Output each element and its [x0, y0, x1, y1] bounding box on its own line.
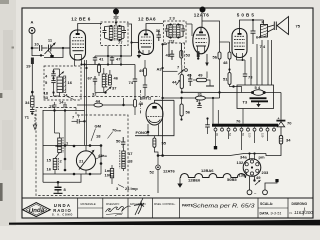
capacitor 41 [93, 56, 97, 65]
wire cap14 down to gang rail [64, 111, 66, 146]
filter choke T3 plates [250, 97, 267, 99]
svg-text:34: 34 [25, 100, 30, 105]
cap 74 on drop x135 [134, 65, 136, 80]
output transformer T4 [260, 20, 268, 50]
plug pin left [247, 190, 252, 195]
resistor 48 on drop x135 [134, 100, 137, 108]
wire 34 down to socket [266, 144, 281, 156]
oscillator coil 46 [102, 74, 105, 87]
scan smear left edge mid [0, 93, 2, 98]
resistor 19 on antenna line [31, 58, 34, 65]
T1 primary coil [109, 26, 113, 40]
svg-text:DATA.: DATA. [260, 212, 270, 216]
heater right end to socket [246, 172, 247, 177]
wire osc coil links [103, 68, 105, 74]
coil 16 core hatched [64, 76, 66, 93]
svg-text:10: 10 [34, 42, 39, 47]
svg-text:18: 18 [96, 134, 101, 139]
svg-text:T3: T3 [243, 100, 248, 105]
grid feed wires down to gang [84, 60, 86, 146]
T1 bottom link wires [105, 38, 112, 40]
svg-text:138: 138 [239, 173, 246, 178]
cap on x145 [143, 85, 147, 87]
svg-text:Unda: Unda [29, 207, 45, 215]
pin wires down [215, 131, 217, 146]
svg-text:DISEGNATO: DISEGNATO [106, 203, 120, 206]
svg-text:21: 21 [79, 159, 84, 164]
wire plug right [265, 181, 277, 190]
resistor 56 [180, 104, 183, 116]
resistor 54 oval on bus [253, 90, 264, 96]
T2 secondary coil [177, 25, 180, 38]
materiale mid line [78, 207, 103, 209]
left rail x43 [42, 110, 44, 182]
wires T2 bottom down [168, 43, 170, 57]
svg-text:51: 51 [223, 77, 228, 82]
svg-text:16: 16 [68, 80, 73, 85]
svg-text:53: 53 [186, 53, 191, 58]
svg-text:43: 43 [44, 95, 49, 100]
svg-text:46: 46 [114, 76, 119, 81]
wire oval to diode drop [264, 92, 281, 94]
svg-text:34a: 34a [240, 155, 247, 160]
T1 secondary coil [118, 26, 122, 40]
svg-text:100: 100 [105, 173, 112, 178]
svg-text:12 BA6: 12 BA6 [138, 17, 156, 22]
mains terminal dot [275, 179, 278, 182]
resistor 42 drop x145 [144, 60, 146, 68]
socket top wires [249, 154, 251, 161]
trimmer capacitor 11 [45, 43, 56, 55]
T2 link wires [167, 24, 171, 27]
svg-text:50: 50 [116, 139, 121, 144]
capacitor 10 [40, 45, 42, 51]
output filter box T3 [237, 85, 274, 109]
FONO box right/bottom [135, 100, 174, 135]
chassis bar [212, 124, 278, 127]
svg-text:44: 44 [96, 98, 101, 103]
svg-text:55: 55 [162, 141, 167, 146]
svg-text:75: 75 [296, 24, 301, 29]
svg-text:13: 13 [49, 104, 54, 109]
socket circle [243, 159, 261, 177]
svg-text:43: 43 [166, 53, 171, 58]
capacitor 73 [244, 60, 246, 74]
oscillator dashed box [44, 66, 81, 100]
svg-text:RADIO: RADIO [53, 208, 72, 213]
tube 50B5 [232, 29, 247, 58]
svg-text:32: 32 [92, 91, 97, 96]
junction dots around gang [64, 144, 67, 147]
coil 100 lower [110, 169, 113, 178]
svg-text:70: 70 [287, 121, 292, 126]
bottom black scan bar [9, 220, 320, 226]
svg-text:A3: A3 [157, 67, 163, 72]
wire dot down to 12AT6 [201, 13, 203, 28]
wires gang rails [43, 145, 101, 147]
dash-dot divider x140 [140, 90, 142, 114]
wire B+ drop at x253 [252, 20, 254, 31]
svg-text:1MTΩ: 1MTΩ [140, 96, 152, 101]
lower bus y98 [163, 97, 196, 99]
wire cap10 to trimmer 11 [42, 47, 48, 49]
svg-text:9-3-51: 9-3-51 [271, 212, 282, 216]
dashed linkage under T2 [184, 43, 186, 70]
title block top line [22, 197, 313, 199]
bus wire y64 middle [82, 64, 136, 66]
svg-text:12BA6: 12BA6 [201, 168, 214, 173]
IF transformer T1 dashed box [101, 22, 129, 46]
vertical feed wires to output section [250, 57, 252, 85]
wire AVC tap y55.4 [32, 54, 44, 56]
bus y155.5 [158, 154, 266, 156]
bottom rail wire [43, 174, 81, 182]
speaker 75 [268, 17, 289, 35]
capacitor 64 [251, 31, 256, 33]
svg-text:48: 48 [223, 60, 228, 65]
border frame [22, 8, 313, 218]
cap at bar left [206, 117, 208, 119]
wire 12BE6 cathode legs down [74, 60, 76, 66]
svg-text:12 BE 6: 12 BE 6 [71, 17, 90, 22]
capacitor 67 [93, 76, 97, 85]
plug pin right [263, 190, 268, 195]
node 22 pilot dot [113, 9, 119, 15]
svg-text:Schema per R. 65/3: Schema per R. 65/3 [193, 203, 255, 209]
svg-text:233: 233 [262, 170, 269, 175]
T2 primary cap [165, 25, 169, 37]
wire 12BE6 left leg [51, 47, 70, 49]
svg-text:5 0 B 5: 5 0 B 5 [237, 13, 255, 18]
antenna coil 1 [58, 138, 62, 153]
left column wire with dots [53, 69, 55, 74]
wire antenna line down [31, 64, 33, 96]
antenna choke coil 34 [31, 96, 34, 107]
wire antenna down [31, 34, 33, 57]
resistor 34 [279, 136, 282, 145]
oscillator coil 16 winding [57, 77, 63, 93]
svg-text:31: 31 [198, 92, 203, 97]
wire down to socket bar x213 [212, 98, 214, 124]
heater left end ground [179, 178, 181, 184]
svg-text:DISEG. CONTROLL.: DISEG. CONTROLL. [154, 204, 176, 206]
svg-text:GM: GM [95, 124, 102, 129]
T1 secondary trim cap [122, 27, 126, 39]
svg-text:45: 45 [187, 73, 192, 78]
svg-text:A: A [31, 20, 34, 25]
dashed AVC line y96.5 [50, 96, 160, 98]
T1 top link wires [105, 25, 112, 28]
resistor 31 oval on lower bus [195, 96, 205, 100]
wire 12BE6 plate up [78, 24, 102, 31]
title block divider x=179.5 [179, 198, 181, 218]
tube 12BE6 [70, 30, 86, 60]
scan smear left edge low [0, 183, 3, 201]
svg-text:FONO: FONO [136, 130, 148, 135]
title block divider x=258 [257, 198, 259, 218]
svg-text:24 Imp: 24 Imp [125, 186, 138, 191]
resistor 40 under 12BE6 [98, 65, 101, 73]
scan smudge top-left [0, 0, 9, 4]
terminal 52 [157, 156, 159, 166]
wire T2 right to 12AT6 [186, 23, 192, 25]
wire trimmer to 12BE6 grid [51, 47, 70, 49]
upper bus y92.3 [182, 91, 253, 93]
svg-text:41: 41 [99, 57, 104, 62]
T1 primary trim cap [103, 27, 107, 39]
wire cap13 down to coil [54, 111, 56, 134]
capacitor 47 [110, 56, 114, 65]
svg-text:37: 37 [112, 86, 117, 91]
svg-text:71: 71 [25, 115, 30, 120]
svg-text:21t: 21t [169, 39, 175, 44]
junction dots T1 bottom legs [107, 55, 109, 57]
resistor 51 [228, 73, 231, 85]
tube 12BA6 [139, 30, 154, 55]
pointer lines [91, 129, 96, 142]
volume potentiometer 44 [180, 75, 183, 89]
UNDA RADIO company text [52, 203, 73, 217]
svg-text:12BE6: 12BE6 [188, 177, 201, 182]
svg-text:150: 150 [248, 133, 252, 138]
coil wires [59, 133, 61, 138]
T1 junction dots [110, 25, 112, 27]
Unda logo diamond [23, 203, 51, 217]
title block divider x=128 [127, 198, 129, 218]
antenna terminal [29, 28, 35, 34]
ground under 12BA6 [138, 52, 140, 55]
signature approvato (tall slash) [134, 198, 144, 215]
wire T1 secondary down [120, 46, 122, 57]
svg-text:44: 44 [172, 80, 177, 85]
svg-text:MATERIALE:: MATERIALE: [81, 202, 97, 206]
tube right leg [158, 125, 160, 136]
title block divider x=288 [287, 198, 289, 218]
wire 12BA6 plate top [146, 24, 163, 31]
ground under T3 [258, 102, 260, 104]
T2 secondary cap [181, 25, 185, 37]
svg-text:34: 34 [286, 138, 291, 143]
antenna coil 2 [53, 159, 57, 170]
title block divider x=102.8 [102, 198, 104, 218]
svg-text:48: 48 [139, 101, 144, 106]
svg-text:37: 37 [196, 98, 201, 103]
svg-text:N.: N. [290, 211, 293, 215]
resistor 53 under T2 [180, 51, 183, 59]
title block divider x=77.7 [77, 198, 79, 218]
IF transformer T2 dashed box [164, 21, 187, 43]
heater chain humps [180, 174, 246, 178]
wire 50B5 plate to top bus [240, 20, 264, 29]
node antenna junction [31, 47, 34, 50]
svg-text:77: 77 [118, 40, 123, 45]
tuning gang 21 [76, 151, 95, 170]
trimmer ground pad [49, 51, 52, 55]
svg-text:18: 18 [128, 159, 133, 164]
diode 70 [276, 116, 285, 135]
socket pins [245, 160, 259, 175]
resistor 55 [153, 138, 156, 147]
wires 50B5 legs down [236, 58, 238, 61]
svg-text:15: 15 [47, 158, 52, 163]
T2 primary coil [169, 25, 172, 38]
T2 junction dots [170, 23, 172, 25]
switch arrow 49b [255, 180, 261, 185]
svg-text:5 4: 5 4 [255, 85, 261, 90]
svg-text:49: 49 [139, 68, 144, 73]
svg-text:S. A. COMO: S. A. COMO [52, 214, 73, 217]
svg-text:74: 74 [129, 80, 134, 85]
svg-text:DISEGNO: DISEGNO [292, 202, 308, 206]
resistor 5b on x219.5 drop [202, 21, 220, 52]
svg-text:19: 19 [26, 64, 31, 69]
wire T1 right to 12BA6 [127, 24, 132, 56]
title block divider x=152.5 [152, 198, 154, 218]
tube top wire [155, 100, 175, 103]
tube 12AT6 [193, 27, 209, 54]
node 12AT6 pilot dot [200, 7, 206, 13]
RF coil 17 [122, 151, 125, 161]
wires above bar [242, 109, 244, 124]
wire antenna to cap10 [32, 47, 39, 49]
svg-text:SCALA:: SCALA: [260, 202, 273, 206]
detector tube [146, 103, 163, 125]
svg-text:14: 14 [59, 100, 64, 105]
svg-text:76: 76 [236, 119, 241, 124]
wire y110.5 [43, 110, 85, 112]
svg-text:56: 56 [186, 110, 191, 115]
wire link y42 [220, 41, 230, 43]
chassis dashed box left/top [36, 108, 150, 196]
svg-text:73: 73 [248, 75, 253, 80]
AVC arrow down [206, 54, 208, 64]
AVC wire y105 with oval 44 [77, 104, 94, 106]
svg-text:52: 52 [150, 170, 155, 175]
pin stems [216, 127, 275, 128]
svg-text:50B5: 50B5 [227, 177, 237, 182]
wire dot22 down to T1 [115, 15, 117, 26]
scala/data row divider [258, 207, 288, 209]
svg-text:47: 47 [116, 56, 121, 61]
scan speck left [12, 47, 15, 49]
cap 37b [198, 102, 200, 104]
svg-text:67: 67 [88, 76, 93, 81]
svg-text:16: 16 [47, 167, 52, 172]
svg-text:49: 49 [198, 73, 203, 78]
socket bottom wires to plug [249, 177, 251, 191]
coil arrow [59, 72, 65, 77]
svg-text:12AT6: 12AT6 [194, 13, 209, 18]
T2 core [173, 24, 175, 39]
socket pins row [214, 128, 276, 131]
pin labels vertical [215, 133, 265, 138]
svg-text:12AT6: 12AT6 [163, 169, 175, 174]
svg-text:159: 159 [261, 133, 265, 138]
svg-text:7 4: 7 4 [260, 44, 266, 49]
tube left leg [147, 124, 149, 136]
chassis dashed box step right [76, 108, 128, 196]
wire 12AT6 leg down with resistor [197, 51, 199, 59]
T1 core [114, 25, 116, 41]
svg-text:132: 132 [237, 160, 244, 165]
svg-text:5b: 5b [213, 55, 218, 60]
RF coil 18 [122, 162, 125, 169]
svg-text:pm: pm [259, 155, 265, 160]
wires inside osc box [54, 68, 60, 70]
signature disegnato [106, 206, 131, 212]
capacitor 8 electrolytic [57, 181, 60, 184]
resistor 48 on x229.5 drop [229, 42, 231, 52]
left rail from T2 [166, 43, 168, 44]
series cap below coil [31, 107, 33, 109]
svg-text:17: 17 [128, 151, 133, 156]
svg-text:2 3: 2 3 [169, 16, 175, 21]
svg-text:49: 49 [256, 175, 261, 180]
wire T1 primary down [107, 46, 109, 57]
